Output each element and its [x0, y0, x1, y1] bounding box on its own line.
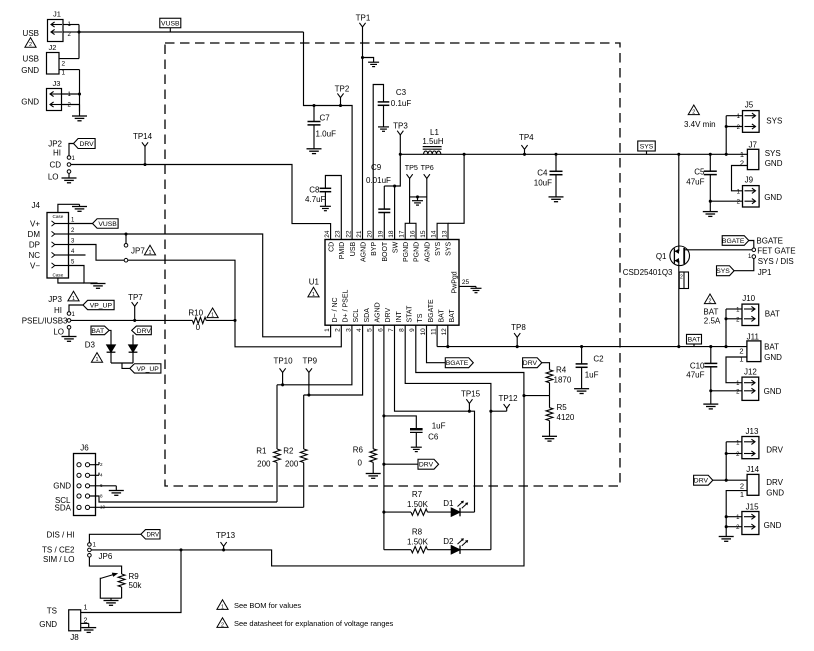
ground (R5): [542, 436, 557, 441]
label HI (JP2): [53, 148, 61, 157]
net flag BGATE (JP1): [722, 236, 749, 246]
svg-text:GND: GND: [39, 620, 57, 629]
svg-text:10: 10: [100, 505, 106, 510]
svg-text:J14: J14: [746, 465, 759, 474]
svg-text:J12: J12: [744, 367, 757, 376]
svg-text:JP7: JP7: [131, 246, 145, 255]
net flag DRV (pin6): [418, 459, 439, 469]
svg-text:PGND: PGND: [414, 242, 421, 262]
connector J14: [740, 465, 760, 499]
resistor R6: [353, 325, 377, 473]
resistor R4: [546, 366, 572, 396]
svg-text:J11: J11: [747, 332, 760, 341]
svg-text:R10: R10: [188, 309, 203, 318]
connector J4: [28, 201, 75, 278]
wire Q1 source to BAT rail: [678, 266, 680, 347]
svg-text:6: 6: [377, 328, 384, 332]
connector J3: [47, 79, 72, 111]
svg-text:50k: 50k: [129, 581, 143, 590]
label GND (J3): [21, 98, 39, 107]
warning triangle 1 (note): [217, 600, 228, 611]
label SYS / DIS: [758, 257, 794, 266]
svg-text:DP: DP: [29, 241, 40, 250]
ground (C8): [320, 206, 331, 210]
testpoint TP6: [421, 163, 434, 239]
ground (JP2 LO): [62, 173, 77, 183]
svg-text:STAT: STAT: [407, 305, 414, 323]
wire D2 cathode to STAT: [460, 549, 491, 551]
svg-text:SCL: SCL: [353, 309, 360, 323]
svg-text:AGND: AGND: [424, 242, 431, 262]
svg-text:J10: J10: [742, 294, 755, 303]
svg-text:BAT: BAT: [764, 342, 779, 351]
wire JP6 pin3 to R9: [89, 557, 121, 574]
node C4 junction: [554, 153, 557, 156]
label SYS GND (J7): [765, 149, 783, 168]
warning triangle 2 (USB): [25, 38, 36, 49]
ground (C5): [703, 212, 718, 217]
node L1 left junction: [399, 153, 402, 156]
node C5-J9 junction: [709, 200, 712, 203]
svg-text:1870: 1870: [554, 375, 572, 384]
transistor Q1: [670, 246, 690, 266]
svg-text:J7: J7: [748, 140, 757, 149]
wire pin6 DRV net: [382, 325, 385, 550]
wire CD net: [71, 165, 331, 240]
svg-text:C2: C2: [593, 355, 604, 364]
svg-text:10uF: 10uF: [534, 179, 552, 188]
net flag DRV (JP6): [141, 530, 160, 539]
connector J1: [48, 10, 72, 42]
svg-text:2: 2: [335, 328, 342, 332]
svg-text:PGND: PGND: [403, 242, 410, 262]
svg-text:2: 2: [100, 462, 103, 467]
svg-text:J8: J8: [70, 633, 79, 642]
svg-text:1.0uF: 1.0uF: [316, 130, 337, 139]
testpoint TP9: [302, 357, 317, 397]
svg-text:1: 1: [211, 313, 214, 319]
svg-text:GND: GND: [764, 353, 782, 362]
warning triangle 2 (BAT): [704, 294, 715, 305]
testpoint TP8: [511, 323, 526, 348]
svg-text:TP5: TP5: [405, 163, 418, 172]
ground (C6): [411, 447, 422, 451]
svg-text:GND: GND: [764, 193, 782, 202]
label DRV GND (J14): [766, 478, 784, 498]
label U1: [309, 278, 320, 287]
svg-text:DIS / HI: DIS / HI: [46, 530, 74, 539]
svg-text:J15: J15: [746, 502, 759, 511]
label BAT GND (J11): [764, 342, 782, 361]
connector J8: [69, 605, 88, 642]
resistor R1: [256, 385, 280, 502]
label TS / CE2: [42, 546, 75, 555]
label DIS / HI: [46, 530, 74, 539]
svg-text:4120: 4120: [557, 413, 575, 422]
svg-text:BGATE: BGATE: [722, 238, 745, 245]
svg-text:R9: R9: [129, 572, 140, 581]
node C10 junction: [709, 345, 712, 348]
svg-text:5: 5: [367, 328, 374, 332]
svg-text:SYS: SYS: [640, 143, 654, 150]
wire J13 pins: [725, 442, 742, 482]
svg-text:R6: R6: [353, 445, 364, 454]
wire J15 pins: [726, 517, 742, 527]
svg-text:1: 1: [312, 292, 315, 298]
wire PSEL net right: [206, 319, 235, 321]
svg-text:V−: V−: [30, 262, 40, 271]
svg-text:J4: J4: [32, 201, 41, 210]
wire DP net: [69, 245, 342, 347]
wire J4 pin4 stub: [69, 254, 86, 256]
svg-text:VP_UP: VP_UP: [90, 302, 113, 309]
node TP1 gnd junction: [361, 56, 364, 59]
svg-text:BAT: BAT: [688, 337, 701, 344]
svg-text:SYS: SYS: [435, 241, 442, 255]
node J1 pin2 junction: [77, 30, 80, 33]
wire J5 pins: [725, 116, 743, 156]
node DM-JP7 junction: [124, 232, 127, 235]
svg-text:VUSB: VUSB: [161, 20, 180, 27]
svg-text:2: 2: [680, 274, 683, 280]
wire STAT net: [405, 325, 492, 550]
net label VUSB (top): [160, 18, 181, 32]
svg-text:TP1: TP1: [356, 14, 371, 23]
label SIM / LO: [43, 555, 75, 564]
svg-text:J5: J5: [745, 101, 754, 110]
label TS (J8): [47, 607, 57, 616]
connector J9: [737, 176, 759, 207]
svg-text:J9: J9: [745, 176, 754, 185]
svg-text:BGATE: BGATE: [428, 299, 435, 323]
warning triangle 1 (D3): [91, 353, 102, 364]
connector J11: [739, 332, 761, 363]
connector J7: [740, 140, 759, 169]
wire J1 pin2 to VUSB rail: [63, 31, 79, 33]
label SYS (J5): [766, 117, 782, 126]
testpoint TP7: [128, 293, 143, 322]
svg-text:GND: GND: [765, 159, 783, 168]
label BGATE (JP1): [756, 237, 783, 246]
pin name PwPgd: [452, 271, 459, 293]
svg-text:TP14: TP14: [133, 132, 153, 141]
svg-text:TP6: TP6: [421, 163, 434, 172]
svg-text:INT: INT: [396, 311, 403, 323]
ground (C2): [574, 389, 589, 394]
net label BAT (rail): [687, 334, 702, 346]
svg-text:CSD25401Q3: CSD25401Q3: [623, 268, 673, 277]
svg-text:3.4V min: 3.4V min: [684, 120, 716, 129]
testpoint TP5: [405, 163, 418, 223]
capacitor C10: [686, 347, 717, 405]
label DRV (J13): [766, 446, 783, 455]
label LO (JP3): [53, 328, 64, 337]
svg-text:C10: C10: [690, 362, 705, 371]
resistor R10: [188, 309, 206, 333]
wire SCL upper: [277, 325, 352, 385]
LED D2: [443, 537, 468, 554]
svg-text:SYS: SYS: [766, 117, 782, 126]
connector J2: [47, 43, 66, 77]
svg-text:15: 15: [420, 230, 427, 238]
wire J2 pin1: [59, 69, 80, 71]
svg-text:DRV: DRV: [146, 533, 159, 539]
wire TP1 to pin21: [362, 27, 364, 240]
svg-text:0: 0: [358, 458, 363, 467]
svg-text:1: 1: [72, 296, 75, 302]
svg-text:JP6: JP6: [99, 552, 113, 561]
svg-text:PwPgd: PwPgd: [452, 271, 459, 293]
svg-text:J1: J1: [53, 10, 61, 19]
svg-text:TP9: TP9: [302, 357, 317, 366]
jumper JP7: [124, 244, 128, 263]
svg-text:TP10: TP10: [273, 357, 293, 366]
svg-text:SYS: SYS: [765, 149, 781, 158]
svg-text:V+: V+: [30, 220, 40, 229]
testpoint TP4: [519, 133, 534, 156]
capacitor C5: [686, 154, 717, 211]
svg-text:C7: C7: [320, 113, 331, 122]
svg-text:8: 8: [399, 328, 406, 332]
svg-text:D+ / PSEL: D+ / PSEL: [343, 290, 350, 323]
jumper JP2: [67, 156, 75, 174]
wire TS net: [416, 325, 524, 395]
svg-text:C9: C9: [371, 163, 382, 172]
svg-text:TP13: TP13: [216, 531, 236, 540]
net flag BGATE (pin10): [445, 358, 473, 368]
wire J4 case bottom: [58, 278, 84, 283]
svg-text:BYP: BYP: [371, 241, 378, 255]
svg-text:GND: GND: [53, 482, 71, 491]
jumper JP6: [88, 543, 97, 558]
label HI (JP3): [54, 306, 62, 315]
svg-text:GND: GND: [21, 98, 39, 107]
svg-text:BGATE: BGATE: [756, 237, 783, 246]
svg-text:DM: DM: [28, 230, 41, 239]
resistor R5: [546, 396, 575, 437]
wire BAT flag to D3a: [109, 330, 111, 345]
capacitor C4: [534, 154, 563, 197]
node C2 junction: [580, 345, 583, 348]
svg-text:BAT: BAT: [449, 309, 456, 323]
svg-text:12: 12: [441, 328, 448, 336]
svg-text:11: 11: [431, 328, 438, 335]
capacitor C8: [305, 185, 331, 206]
svg-text:TS: TS: [417, 313, 424, 322]
label FET GATE: [757, 247, 795, 256]
svg-text:2: 2: [692, 110, 695, 116]
LED D1: [443, 499, 468, 516]
svg-text:4: 4: [100, 473, 103, 478]
node TS-J8 junction: [179, 548, 182, 551]
svg-text:6: 6: [100, 483, 103, 488]
label D3: [85, 341, 96, 350]
svg-text:USB: USB: [23, 55, 39, 64]
wire J1-J2 vertical: [78, 25, 80, 59]
capacitor C2: [576, 347, 605, 389]
svg-text:1.50K: 1.50K: [407, 538, 429, 547]
ground (R6): [366, 474, 381, 479]
net flag VP_UP (D3): [130, 364, 161, 373]
svg-text:TP8: TP8: [511, 323, 526, 332]
resistor R8: [407, 528, 429, 553]
svg-text:C4: C4: [537, 169, 548, 178]
dashed boundary box: [165, 43, 620, 486]
testpoint TP1: [356, 14, 371, 27]
warning triangle 1 (JP3): [68, 291, 79, 302]
svg-text:USB: USB: [350, 241, 357, 256]
wire DRV flag to D3b: [132, 335, 134, 345]
svg-text:1: 1: [84, 605, 88, 612]
wire pin11 pin12 to BAT rail: [437, 325, 449, 348]
svg-text:D1: D1: [443, 499, 454, 508]
pin names bottom: [332, 290, 456, 323]
label PSEL/IUSB3: [22, 317, 68, 326]
svg-text:BAT: BAT: [91, 328, 104, 335]
wire J6 row1 stub: [90, 462, 103, 467]
ground (J4 bottom): [91, 284, 106, 289]
wire J7 pin2 to J9: [732, 166, 748, 191]
ground (J6): [100, 483, 124, 495]
connector J6: [74, 443, 96, 515]
svg-text:Case: Case: [53, 214, 64, 219]
boxed pin 2 (Q1): [679, 272, 688, 289]
net flag DRV (JP2): [74, 139, 96, 149]
wire JP7 stub: [125, 234, 127, 243]
svg-text:1.5uH: 1.5uH: [422, 137, 444, 146]
svg-text:10: 10: [420, 328, 427, 336]
svg-text:BAT: BAT: [765, 310, 780, 319]
connector J12: [736, 367, 759, 400]
wire D1 cathode to INT: [460, 511, 475, 513]
node SW-C9 junction: [393, 184, 396, 187]
warning triangle 1 (JP7): [144, 245, 155, 256]
svg-text:DRV: DRV: [694, 478, 709, 485]
wire SYS to Q1 drain: [677, 153, 680, 246]
connector J5: [737, 101, 759, 133]
label GND (J6): [53, 482, 71, 491]
wire J12 pin2: [711, 390, 742, 392]
label GND (J12): [764, 387, 782, 396]
svg-text:JP1: JP1: [758, 268, 772, 277]
svg-text:U1: U1: [309, 278, 320, 287]
wire JP6 pin1 to DRV: [89, 534, 140, 542]
svg-text:GND: GND: [764, 387, 782, 396]
svg-text:TP3: TP3: [393, 121, 408, 130]
connector J10: [736, 294, 759, 326]
svg-text:2: 2: [29, 42, 32, 48]
wire J3 pin1: [62, 93, 80, 95]
svg-text:NC: NC: [28, 251, 40, 260]
svg-text:CD: CD: [329, 242, 336, 252]
svg-text:SDA: SDA: [55, 503, 72, 512]
svg-text:J3: J3: [53, 79, 61, 88]
ground (C7): [307, 149, 322, 154]
svg-text:VUSB: VUSB: [98, 221, 117, 228]
wire J2 pin2: [59, 58, 79, 60]
svg-text:7: 7: [388, 328, 395, 332]
testpoint TP2: [335, 84, 350, 107]
svg-text:See datasheet for explanation: See datasheet for explanation of voltage…: [234, 619, 394, 628]
ground (R9): [104, 598, 119, 605]
jumper JP3: [67, 312, 75, 329]
wire D3 cathodes to VP_UP: [111, 352, 133, 368]
svg-text:DRV: DRV: [766, 446, 783, 455]
svg-text:C5: C5: [694, 168, 705, 177]
svg-text:200: 200: [285, 460, 299, 469]
svg-text:3: 3: [345, 328, 352, 332]
warning triangle 1 (U1): [308, 287, 319, 298]
svg-text:47uF: 47uF: [686, 178, 704, 187]
svg-text:HI: HI: [54, 306, 62, 315]
testpoint TP14: [133, 132, 153, 166]
svg-text:JP2: JP2: [48, 139, 62, 148]
wire C6 branch: [384, 416, 416, 429]
wire VUSB rail: [79, 31, 304, 33]
net flag DRV (J13): [694, 475, 713, 485]
svg-text:FET GATE: FET GATE: [757, 247, 795, 256]
warning triangle 1 (R10): [207, 308, 218, 319]
svg-text:1: 1: [739, 355, 743, 364]
pin 25 pad wire: [459, 279, 476, 286]
boxed pin 13: [437, 223, 448, 239]
svg-text:17: 17: [399, 230, 406, 238]
wire DRV to R4: [542, 363, 550, 370]
svg-text:VP_UP: VP_UP: [137, 366, 160, 373]
wire pin20 to C3: [373, 85, 383, 240]
svg-text:GND: GND: [766, 489, 784, 498]
svg-text:18: 18: [388, 230, 395, 238]
svg-text:2: 2: [221, 622, 224, 628]
ground (C3): [378, 127, 389, 131]
ground (J15): [719, 537, 734, 542]
wire pin23 to C8: [325, 176, 341, 240]
wire R7 to D1: [428, 511, 452, 513]
pin numbers bottom: [324, 328, 448, 336]
net flag DRV (D3): [132, 326, 152, 335]
svg-text:BAT: BAT: [438, 309, 445, 323]
testpoint TP3: [393, 121, 408, 154]
diode D3a: [107, 345, 116, 352]
potentiometer R9: [100, 572, 142, 598]
wire R7 row: [384, 511, 411, 513]
svg-text:20: 20: [367, 230, 374, 238]
wire JP2 pin1 to DRV: [69, 144, 74, 156]
wire VUSB to pin22: [304, 32, 353, 240]
label USB: [23, 29, 39, 38]
label GND (J8): [39, 620, 57, 629]
wire J8 pin1: [81, 550, 181, 613]
svg-text:22: 22: [345, 230, 352, 238]
svg-text:DRV: DRV: [79, 141, 94, 148]
svg-text:LO: LO: [53, 328, 64, 337]
svg-text:0.1uF: 0.1uF: [391, 99, 412, 108]
label BAT 2.5A: [703, 307, 720, 325]
pin numbers top: [324, 230, 438, 238]
wire J4 pin1 to VUSB flag: [69, 223, 93, 225]
svg-text:BOOT: BOOT: [382, 241, 389, 262]
wire R4-R5 junction to TS: [524, 395, 550, 397]
wire TP5-TP6 gnd bar: [410, 195, 427, 200]
svg-text:9: 9: [409, 328, 416, 332]
svg-text:PSEL/IUSB3: PSEL/IUSB3: [22, 317, 68, 326]
wire J1 pin1: [63, 24, 79, 26]
svg-text:J2: J2: [49, 43, 57, 52]
wire J4 pin5 to ground: [69, 266, 98, 284]
svg-text:1: 1: [62, 70, 66, 77]
svg-text:R8: R8: [412, 528, 423, 537]
wire JP1 pin1 to SYS flag: [734, 259, 754, 271]
